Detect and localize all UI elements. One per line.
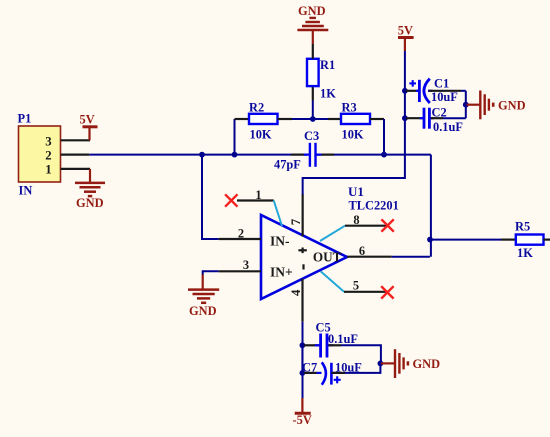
node: output node to R5 [427, 237, 433, 243]
svg-text:1: 1 [45, 163, 51, 177]
svg-text:GND: GND [189, 304, 217, 318]
svg-text:TLC2201: TLC2201 [349, 199, 399, 213]
resistor R5 [501, 220, 550, 261]
node: R1/R2/R3 junction [310, 116, 316, 122]
svg-text:0.1uF: 0.1uF [433, 120, 463, 134]
wire: branch up to R2 [234, 119, 236, 155]
wire: main input net y=154.6 [89, 154, 291, 156]
ground GND at pin 3 [188, 270, 219, 318]
capacitor C3 [274, 129, 322, 171]
wire between C5 and C7 taps [301, 345, 303, 373]
svg-text:C3: C3 [304, 129, 319, 143]
wire: V- down to -5V [302, 322, 304, 398]
svg-text:0.1uF: 0.1uF [328, 332, 358, 346]
pin 1 stub of P1 [61, 168, 91, 170]
wire: C3 right black stub [317, 154, 335, 156]
no-connect X on pin 1 [225, 194, 237, 206]
svg-text:6: 6 [359, 244, 365, 258]
op-amp U1 triangle [261, 184, 399, 299]
svg-text:2: 2 [45, 149, 51, 163]
svg-text:C7: C7 [302, 361, 317, 375]
resistor R2 [235, 101, 293, 142]
svg-text:1K: 1K [517, 246, 533, 260]
wire: V+ supply to 5V rail [303, 51, 405, 195]
wire: C2 to right vertical [443, 117, 466, 119]
svg-text:10K: 10K [342, 128, 364, 142]
capacitor C1 (polarized) [406, 77, 461, 105]
svg-text:10K: 10K [250, 128, 272, 142]
ground GND right of C5/C7 (sideways) [381, 349, 440, 378]
svg-text:4: 4 [289, 289, 303, 296]
wire: output to feedback corner [392, 256, 430, 258]
wire: feedback vertical to output [430, 155, 432, 257]
connector P1 [18, 112, 61, 198]
svg-text:3: 3 [45, 135, 51, 149]
node: C2 tap on 5V rail [402, 115, 408, 121]
capacitor C2 [406, 106, 463, 135]
svg-text:IN: IN [19, 184, 33, 198]
power 5V at P1 [80, 113, 98, 141]
svg-text:GND: GND [298, 4, 326, 18]
svg-text:C1: C1 [434, 77, 449, 91]
node: C1 tap on 5V rail [402, 88, 408, 94]
resistor R1 [307, 44, 336, 119]
svg-text:10uF: 10uF [431, 90, 458, 104]
node: C7 tap on V- rail [300, 370, 306, 376]
svg-text:R5: R5 [515, 220, 530, 234]
no-connect X on pin 5 [381, 286, 393, 298]
pin 2 of U1 [219, 227, 261, 241]
power -5V at bottom [293, 398, 312, 427]
svg-text:3: 3 [243, 258, 249, 272]
wire: C3 left black stub [291, 154, 307, 156]
svg-text:8: 8 [353, 213, 359, 227]
no-connect X on pin 8 [381, 219, 393, 231]
svg-text:7: 7 [289, 218, 303, 225]
svg-text:GND: GND [76, 196, 104, 210]
svg-text:U1: U1 [348, 184, 364, 199]
wire: C7 right elbow [345, 363, 380, 373]
node: junction to R2 branch [232, 152, 238, 158]
svg-text:1K: 1K [320, 87, 336, 101]
wire: branch down to pin 2 of U1 [202, 155, 219, 239]
svg-text:5: 5 [353, 279, 359, 293]
pin 2 stub of P1 [61, 154, 90, 156]
svg-text:5V: 5V [398, 23, 413, 37]
resistor R3 [328, 101, 384, 142]
node: R3/feedback junction [381, 152, 387, 158]
wire: R3 right lead down to feedback net [383, 119, 385, 155]
node: C5/C7 ground node [378, 361, 384, 367]
capacitor C7 (polarized) [302, 361, 362, 385]
pin 1 of U1 (no connect) [237, 188, 282, 226]
svg-text:IN+: IN+ [270, 265, 293, 280]
svg-text:GND: GND [413, 357, 441, 371]
pin 8 of U1 (no connect) [320, 213, 387, 241]
wire: right vertical joining C1/C2 [465, 91, 467, 118]
node: C5 tap on V- rail [300, 342, 306, 348]
pin 5 of U1 (no connect) [321, 271, 387, 292]
capacitor C5 [304, 321, 358, 358]
wire: C5 right elbow [341, 345, 381, 363]
node: C1/C2 ground node [463, 102, 469, 108]
ground GND at P1 [75, 169, 105, 210]
svg-text:R1: R1 [320, 58, 335, 72]
svg-text:OUT: OUT [313, 250, 342, 265]
svg-text:1: 1 [255, 188, 261, 202]
wire: feedback net right of C3 [334, 154, 431, 156]
svg-text:2: 2 [238, 227, 244, 241]
wire: output to R5 [430, 239, 501, 241]
pin 6 of U1 (output) [347, 244, 392, 258]
pin 3 of U1 [203, 258, 261, 272]
pin 4 of U1 (V-) [289, 279, 303, 322]
svg-text:R3: R3 [342, 101, 357, 115]
svg-text:R2: R2 [249, 101, 264, 115]
svg-text:5V: 5V [80, 113, 95, 127]
wire: R2 to R1/R3 junction [292, 118, 328, 120]
svg-text:-5V: -5V [293, 413, 312, 427]
svg-text:GND: GND [498, 99, 526, 113]
svg-text:P1: P1 [18, 112, 32, 126]
ground GND right of C1/C2 (sideways) [467, 91, 526, 120]
svg-text:47pF: 47pF [274, 157, 301, 171]
power 5V top right [398, 23, 414, 51]
node: junction to IN- branch [199, 152, 205, 158]
pin 3 stub of P1 [61, 139, 91, 141]
ground GND above R1 (inverted) [297, 4, 328, 44]
pin 7 of U1 (V+) [289, 194, 303, 236]
wire: C1 to right vertical [461, 90, 466, 92]
svg-text:IN-: IN- [270, 233, 290, 248]
